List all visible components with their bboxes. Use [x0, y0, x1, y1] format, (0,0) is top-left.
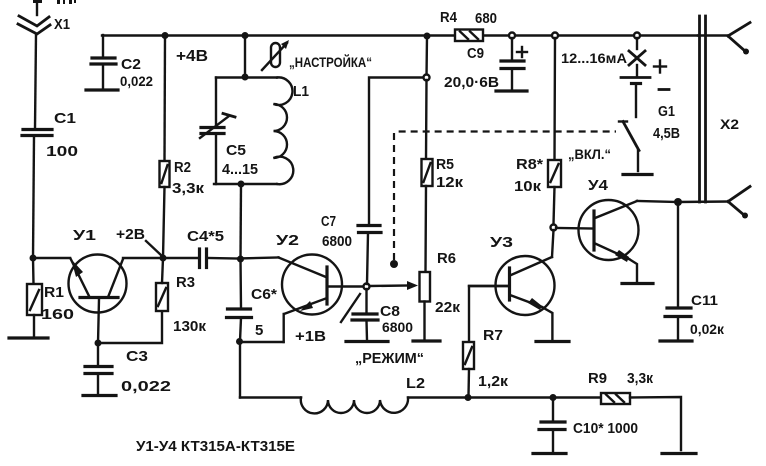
node C10 junction [550, 394, 557, 401]
svg-text:20,0·6В: 20,0·6В [444, 75, 499, 91]
inductor L1 [274, 77, 294, 184]
capacitor C8 [352, 289, 378, 340]
wire V4 collector to node F [637, 201, 678, 202]
wire tap down to node C [239, 184, 242, 259]
svg-text:C4*5: C4*5 [187, 229, 224, 245]
resistor R1 [27, 258, 42, 336]
bottom rail right section [408, 396, 601, 398]
svg-text:C1: C1 [54, 110, 76, 127]
svg-text:R7: R7 [483, 328, 503, 344]
transistor U2 (V2) [238, 255, 364, 343]
capacitor C2 [91, 35, 116, 88]
wire X1 to C1 [35, 34, 36, 128]
node tank top junction [242, 74, 249, 81]
wire node A to V1 emitter [33, 257, 70, 259]
antenna W1 (cut off at top) [33, 0, 76, 15]
resistor R7 [463, 286, 509, 396]
svg-text:„НАСТРОЙКА“: „НАСТРОЙКА“ [289, 53, 372, 70]
node E ring junction (V2 base node) [364, 284, 370, 290]
svg-text:+4В: +4В [176, 48, 208, 65]
node B junction (+2V node) [160, 255, 167, 262]
top rail wire [102, 34, 455, 36]
wire V1 base down [98, 299, 99, 343]
ground under C3 [83, 394, 116, 397]
node ring C9 junction [509, 33, 515, 39]
inductor L2 [301, 398, 408, 414]
battery G1 [621, 61, 669, 118]
ground under V4 emitter [622, 282, 653, 285]
svg-text:У1: У1 [73, 227, 96, 244]
svg-text:У3: У3 [490, 234, 513, 251]
resistor R5 [422, 80, 433, 272]
resistor R3 [156, 258, 168, 311]
svg-text:„ВКЛ.“: „ВКЛ.“ [568, 147, 611, 162]
ground under C8 [346, 340, 388, 343]
svg-text:C5: C5 [226, 142, 246, 159]
wire C1 to node A [33, 136, 34, 258]
wire node D to V2 emitter [240, 341, 284, 343]
svg-text:22к: 22к [435, 300, 461, 316]
svg-text:0,02к: 0,02к [690, 321, 725, 337]
svg-text:R9: R9 [588, 371, 607, 387]
node A junction [30, 255, 37, 262]
wire R9 to ground [630, 397, 681, 450]
wire tank top [216, 76, 277, 78]
resistor R9 [601, 393, 630, 404]
svg-text:C3: C3 [126, 348, 148, 365]
svg-text:R2: R2 [174, 160, 191, 176]
svg-text:0,022: 0,022 [120, 73, 153, 89]
wire junction to V4 base [556, 227, 594, 230]
svg-text:+2В: +2В [116, 226, 145, 243]
potentiometer R6 [370, 272, 430, 339]
capacitor C7 [358, 78, 426, 285]
svg-text:12к: 12к [436, 175, 464, 191]
svg-text:C7: C7 [321, 214, 336, 230]
transistor U4 (V4) [579, 200, 639, 281]
current break mark 12...16мА [629, 38, 645, 65]
svg-text:У1-У4 КТ315А-КТ315Е: У1-У4 КТ315А-КТ315Е [136, 438, 295, 455]
ground under C2 [86, 88, 118, 91]
svg-text:3,3к: 3,3к [627, 371, 654, 387]
X2 bottom contact fork [678, 187, 750, 219]
svg-text:12...16мА: 12...16мА [561, 51, 627, 66]
svg-text:10к: 10к [514, 179, 542, 195]
ground under C10 [533, 452, 566, 455]
svg-text:C2: C2 [121, 56, 141, 73]
ground under R6 [413, 339, 440, 342]
ground under V3 emitter [536, 340, 569, 343]
variable capacitor C5 [200, 78, 235, 185]
capacitor C4 [163, 249, 238, 268]
svg-text:1,2к: 1,2к [478, 374, 509, 390]
wire V1 collector to node B [123, 257, 163, 259]
transistor U1 (V1) [69, 255, 127, 313]
resistor R8 [548, 38, 561, 224]
wire base node to R3 [98, 311, 162, 343]
capacitor C1 [22, 130, 52, 136]
svg-text:4...15: 4...15 [222, 162, 258, 178]
ground at R9 end [662, 452, 696, 455]
node tank bottom tap [238, 181, 245, 188]
wire rail to tank [244, 36, 246, 78]
svg-text:R5: R5 [436, 157, 454, 173]
svg-text:У4: У4 [588, 177, 609, 194]
capacitor C6 [227, 259, 252, 341]
resistor R4 [455, 30, 483, 42]
svg-text:C11: C11 [691, 292, 718, 308]
resistor R2 [160, 36, 170, 259]
svg-text:5: 5 [255, 322, 263, 339]
svg-text:C9: C9 [467, 46, 484, 62]
svg-text:6800: 6800 [382, 320, 413, 335]
svg-text:R3: R3 [176, 275, 195, 291]
svg-text:X2: X2 [720, 116, 739, 132]
svg-text:4,5В: 4,5В [653, 126, 680, 142]
wire node D down to bottom rail [239, 342, 241, 398]
ground under C11 [660, 339, 692, 342]
svg-text:0,022: 0,022 [121, 378, 171, 395]
capacitor C10 [539, 398, 565, 453]
svg-text:C10* 1000: C10* 1000 [573, 421, 638, 437]
ground under R1 [9, 336, 48, 339]
svg-text:680: 680 [475, 11, 497, 27]
capacitor C11 [665, 202, 691, 339]
svg-text:У2: У2 [276, 232, 299, 249]
switch ВКЛ [619, 122, 652, 175]
connector X1 [18, 16, 50, 34]
transistor U3 (V3) [469, 256, 555, 340]
capacitor C9 electrolytic [501, 38, 527, 90]
node D junction (C6 bottom) [236, 338, 243, 345]
ground under C9 [496, 89, 527, 92]
svg-text:„РЕЖИМ“: „РЕЖИМ“ [355, 351, 424, 367]
svg-text:R4: R4 [440, 10, 457, 26]
svg-text:6800: 6800 [322, 234, 352, 250]
svg-text:3,3к: 3,3к [172, 180, 205, 197]
svg-text:C6*: C6* [251, 287, 277, 303]
svg-text:R1: R1 [44, 285, 64, 301]
node ring battery junction [634, 33, 640, 39]
node rail/L1 junction [242, 32, 249, 39]
tuning trimmer symbol [262, 40, 289, 70]
svg-text:100: 100 [46, 143, 78, 160]
svg-text:L1: L1 [293, 83, 309, 100]
bottom rail wire [240, 396, 301, 398]
node rail/R5 junction [424, 33, 431, 40]
svg-text:G1: G1 [658, 104, 675, 120]
node C junction [237, 256, 244, 263]
node F junction [674, 198, 682, 206]
svg-text:R8*: R8* [516, 157, 543, 173]
svg-text:130к: 130к [173, 318, 206, 335]
capacitor C3 [85, 343, 112, 394]
svg-text:L2: L2 [406, 375, 425, 392]
node base junction [95, 340, 102, 347]
node ring V3/V4 junction [551, 225, 557, 231]
wire rail down to ring [425, 36, 428, 78]
connector X2 bars [700, 16, 706, 202]
РЕЖИМ adjust slash [341, 294, 360, 322]
node R7 junction [465, 394, 472, 401]
mechanical link dashed [390, 132, 616, 269]
X2 top contact fork [698, 23, 750, 55]
node rail/R2 junction [162, 32, 169, 39]
wire tank bottom [214, 183, 277, 185]
node ring R8 junction [552, 33, 558, 39]
svg-text:+1В: +1В [295, 328, 326, 345]
svg-text:X1: X1 [54, 16, 70, 33]
node ring junction at C7 branch [424, 75, 430, 81]
svg-text:160: 160 [41, 306, 74, 323]
svg-text:C8: C8 [380, 304, 400, 320]
svg-text:R6: R6 [437, 251, 456, 267]
wire junction down to V3 collector [552, 230, 554, 257]
